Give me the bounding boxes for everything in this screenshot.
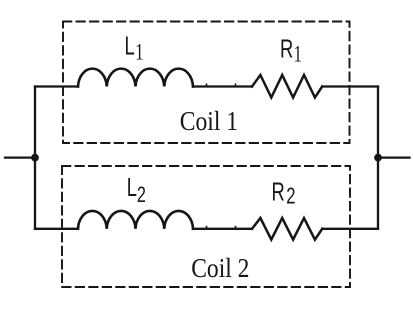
node left junction [31,154,39,162]
tick mark bottom b [235,227,237,229]
wire bottom-middle [193,228,252,230]
dashed box coil 1 [63,22,350,144]
svg-text:L2: L2 [127,173,146,207]
svg-text:Coil 1: Coil 1 [180,107,238,137]
resistor R1 [252,75,322,98]
node right junction [374,154,382,162]
svg-text:Coil 2: Coil 2 [191,253,249,283]
wire bottom-left [35,228,78,230]
wire top-middle [193,85,252,87]
tick mark bottom a [206,227,208,229]
tick mark top b [235,84,237,86]
resistor R2 [252,218,322,240]
wire top-left [35,85,78,87]
svg-text:R2: R2 [272,177,296,209]
right terminal stub [378,156,410,158]
tick mark top a [206,84,208,86]
wire top-right [322,85,378,87]
svg-text:L1: L1 [125,32,144,65]
inductor L1 [78,69,193,87]
inductor L2 [78,211,193,229]
dashed box coil 2 [62,166,350,287]
left terminal stub [5,156,35,158]
wire bottom-right [322,228,378,230]
svg-text:R1: R1 [280,35,302,67]
left vertical wire [34,87,36,229]
right vertical wire [377,87,379,229]
